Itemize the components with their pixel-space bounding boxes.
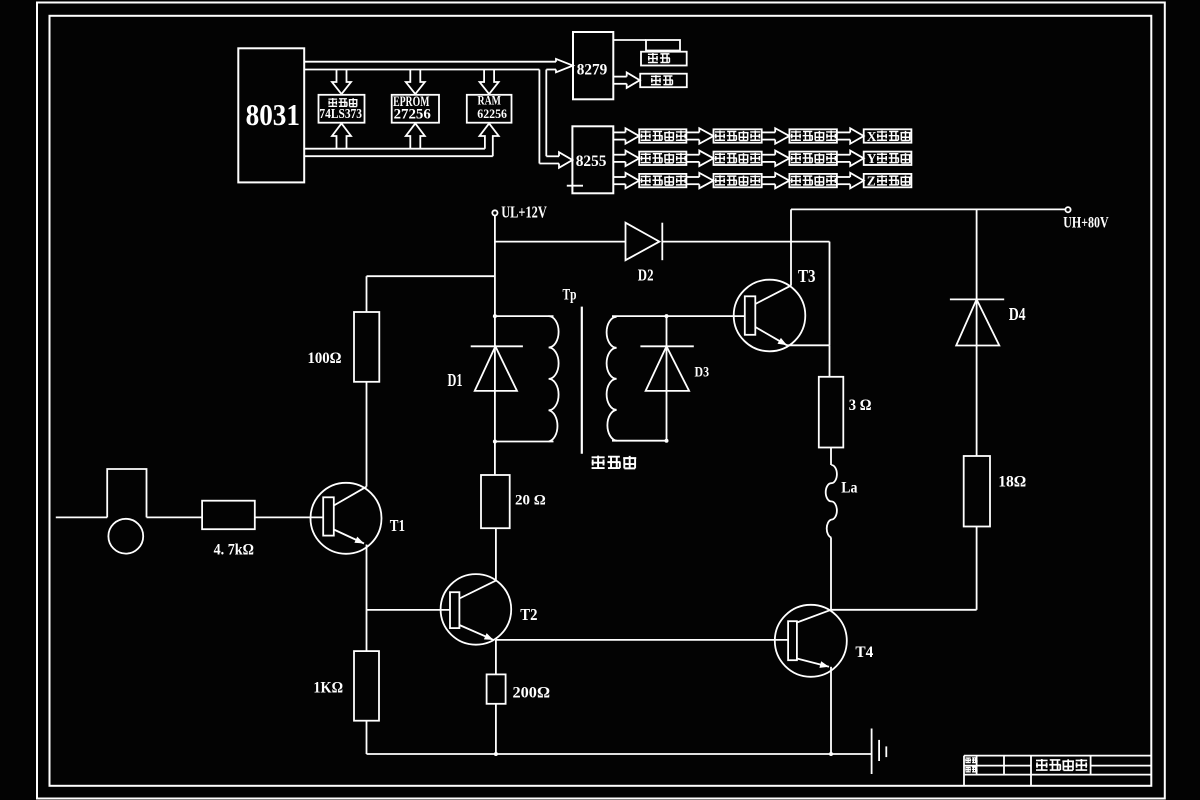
svg-text:100Ω: 100Ω	[308, 350, 342, 367]
svg-text:74LS373: 74LS373	[319, 107, 362, 122]
svg-text:T1: T1	[390, 516, 405, 535]
svg-text:8255: 8255	[576, 153, 607, 170]
svg-text:UH+80V: UH+80V	[1063, 214, 1109, 231]
svg-text:T2: T2	[520, 605, 537, 624]
svg-text:20 Ω: 20 Ω	[515, 492, 546, 508]
svg-text:3 Ω: 3 Ω	[849, 397, 872, 414]
svg-text:Y: Y	[867, 151, 877, 166]
svg-text:62256: 62256	[477, 107, 507, 121]
svg-text:T4: T4	[855, 644, 873, 661]
svg-text:8279: 8279	[577, 61, 608, 78]
svg-text:La: La	[841, 479, 857, 496]
svg-text:Tp: Tp	[563, 287, 577, 304]
svg-text:UL+12V: UL+12V	[501, 202, 547, 221]
svg-text:Z: Z	[867, 173, 876, 188]
svg-text:18Ω: 18Ω	[998, 474, 1026, 491]
svg-text:D4: D4	[1009, 304, 1026, 324]
svg-text:8031: 8031	[246, 97, 300, 132]
svg-text:D2: D2	[638, 265, 654, 284]
svg-text:X: X	[867, 129, 877, 144]
svg-text:1KΩ: 1KΩ	[313, 680, 343, 697]
svg-text:4. 7kΩ: 4. 7kΩ	[214, 541, 254, 558]
svg-text:T3: T3	[798, 266, 816, 286]
svg-text:200Ω: 200Ω	[513, 684, 551, 701]
svg-text:D3: D3	[695, 364, 710, 380]
svg-text:27256: 27256	[394, 107, 432, 123]
svg-text:D1: D1	[448, 370, 463, 390]
